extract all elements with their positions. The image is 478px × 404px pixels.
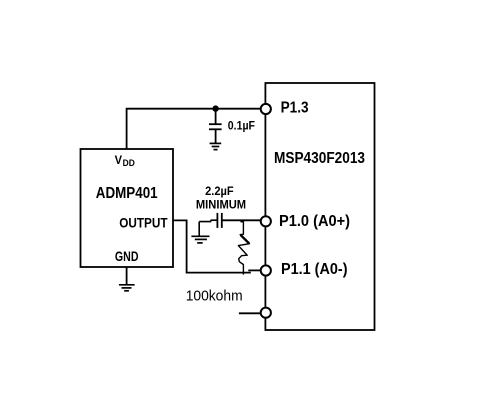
svg-text:2.2µF: 2.2µF (205, 185, 234, 198)
svg-text:ADMP401: ADMP401 (96, 185, 158, 202)
capacitor C2 2.2uF (199, 213, 261, 228)
svg-text:OUTPUT: OUTPUT (119, 216, 168, 231)
wire GND pin to ground (126, 267, 128, 285)
ground below C1 (210, 143, 222, 149)
IC U2 MSP430F2013 box (265, 83, 374, 330)
pin P1.0 circle (261, 216, 271, 226)
label OUTPUT pin name (119, 216, 168, 231)
pin P1.1 circle (261, 265, 271, 275)
pin P1.3 circle (261, 104, 271, 114)
svg-text:0.1µF: 0.1µF (228, 119, 255, 133)
label P1.0 (A0+) pin name (279, 213, 350, 230)
label ADMP401 part name (96, 185, 158, 202)
svg-text:P1.1 (A0-): P1.1 (A0-) (281, 261, 348, 278)
wire VDD to P1.3 (127, 109, 262, 149)
IC U1 ADMP401 box (81, 149, 174, 267)
ground below ADMP401 (119, 285, 135, 291)
wire OUTPUT to P1.1 (173, 220, 261, 272)
wire C2 left to ground (198, 222, 200, 236)
svg-text:100kohm: 100kohm (186, 289, 243, 305)
svg-text:MSP430F2013: MSP430F2013 (274, 150, 365, 167)
svg-text:GND: GND (115, 248, 139, 264)
label 2.2uF value (205, 185, 234, 198)
label 0.1uF value (228, 119, 255, 133)
svg-text:MINIMUM: MINIMUM (196, 199, 246, 212)
label VDD pin name (115, 153, 135, 169)
svg-text:DD: DD (123, 158, 135, 169)
label MINIMUM (196, 199, 246, 212)
node junction dot (212, 105, 218, 111)
ground below C2 (191, 236, 209, 243)
resistor R1 100kohm (238, 221, 249, 275)
svg-text:P1.0 (A0+): P1.0 (A0+) (279, 213, 350, 230)
label P1.1 (A0-) pin name (281, 261, 348, 278)
label P1.3 pin name (281, 100, 309, 117)
svg-text:P1.3: P1.3 (281, 100, 309, 117)
svg-text:V: V (115, 153, 122, 167)
label GND pin name (115, 248, 139, 264)
pin 4 circle (261, 308, 271, 318)
wire stub on 4th pin (239, 312, 260, 314)
label MSP430F2013 part name (274, 150, 365, 167)
label 100kohm value (186, 289, 243, 305)
capacitor C1 0.1uF (209, 109, 222, 144)
